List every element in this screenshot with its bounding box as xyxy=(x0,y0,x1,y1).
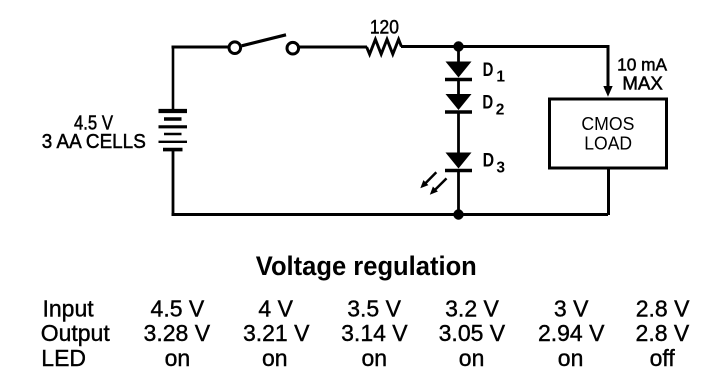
wire from resistor to top-right corner, then down to CMOS load arrow xyxy=(401,47,608,89)
svg-text:on: on xyxy=(262,345,288,371)
svg-text:3.28 V: 3.28 V xyxy=(144,320,211,346)
svg-text:3: 3 xyxy=(496,159,505,176)
switch S1 lever xyxy=(242,35,286,46)
LED diode D3 xyxy=(445,153,472,171)
table row Output xyxy=(41,320,690,346)
LED D3 emission arrow 2 xyxy=(430,178,447,194)
svg-text:D: D xyxy=(482,92,493,113)
svg-text:4 V: 4 V xyxy=(258,296,293,322)
wire D1 to D2 xyxy=(457,79,460,95)
wire D2 to D3 xyxy=(457,111,460,153)
table row Input xyxy=(43,296,691,322)
svg-text:on: on xyxy=(558,345,584,371)
svg-text:LOAD: LOAD xyxy=(584,133,632,154)
svg-text:3.05 V: 3.05 V xyxy=(439,320,506,346)
battery B1 (4.5V 3 AA cells) plates xyxy=(159,111,188,150)
svg-text:off: off xyxy=(650,345,676,371)
svg-text:2: 2 xyxy=(496,102,505,119)
svg-text:3.21 V: 3.21 V xyxy=(243,320,310,346)
svg-text:3.5 V: 3.5 V xyxy=(347,296,401,322)
table row LED xyxy=(41,345,675,371)
svg-text:Voltage regulation: Voltage regulation xyxy=(256,251,477,281)
resistor R1 zigzag xyxy=(367,39,402,54)
svg-text:3.14 V: 3.14 V xyxy=(341,320,408,346)
node A junction dot top xyxy=(453,41,463,51)
CMOS load box xyxy=(550,99,667,168)
wire from switch to resistor xyxy=(299,46,367,49)
switch S1 right contact circle xyxy=(287,42,299,54)
svg-text:10 mA: 10 mA xyxy=(617,55,667,75)
svg-text:2.8 V: 2.8 V xyxy=(636,320,690,346)
svg-text:on: on xyxy=(165,345,191,371)
wire CMOS load bottom to bottom wire xyxy=(607,168,610,215)
LED D3 emission arrow 1 xyxy=(420,172,436,188)
battery B1 top lead wire xyxy=(172,46,175,111)
wire top-left horizontal from battery to switch xyxy=(172,46,230,49)
wire junction to D1 xyxy=(457,46,460,62)
svg-text:4.5 V: 4.5 V xyxy=(151,296,205,322)
svg-text:3 AA CELLS: 3 AA CELLS xyxy=(42,131,146,153)
svg-text:D: D xyxy=(483,60,494,81)
battery B1 bottom lead wire xyxy=(172,149,175,216)
svg-text:2.8 V: 2.8 V xyxy=(636,296,690,322)
diode D2 xyxy=(445,94,472,112)
node B junction dot bottom xyxy=(453,209,463,219)
diode D1 xyxy=(445,62,472,80)
svg-text:CMOS: CMOS xyxy=(581,113,634,134)
svg-text:D: D xyxy=(483,151,495,172)
svg-text:Output: Output xyxy=(41,320,111,346)
svg-text:3.2 V: 3.2 V xyxy=(445,296,499,322)
bottom wire xyxy=(172,213,609,216)
svg-text:2.94 V: 2.94 V xyxy=(538,320,605,346)
svg-text:Input: Input xyxy=(43,296,95,322)
svg-text:LED: LED xyxy=(41,345,86,371)
svg-text:3 V: 3 V xyxy=(554,296,589,322)
svg-text:1: 1 xyxy=(496,69,505,86)
svg-text:120: 120 xyxy=(370,18,399,39)
switch S1 left contact circle xyxy=(229,42,241,54)
arrow head 10 mA into CMOS load xyxy=(603,86,612,97)
svg-text:MAX: MAX xyxy=(622,74,663,94)
svg-text:on: on xyxy=(459,345,485,371)
svg-text:on: on xyxy=(362,345,388,371)
wire D3 to bottom junction xyxy=(457,170,460,215)
